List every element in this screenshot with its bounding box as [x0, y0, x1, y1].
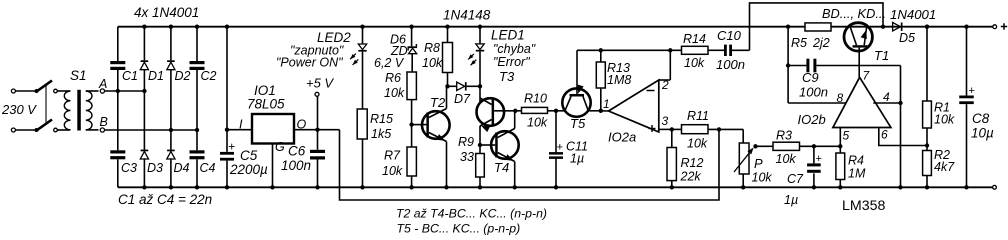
svg-text:1M: 1M — [848, 167, 866, 181]
svg-text:10k: 10k — [687, 137, 708, 151]
svg-text:1µ: 1µ — [570, 152, 584, 166]
svg-text:R8: R8 — [424, 41, 440, 55]
svg-text:"Power ON": "Power ON" — [276, 56, 343, 70]
svg-text:T5 - BC... KC... (p-n-p): T5 - BC... KC... (p-n-p) — [397, 222, 521, 236]
svg-text:B: B — [100, 115, 108, 129]
svg-text:R9: R9 — [458, 135, 474, 149]
svg-text:D4: D4 — [174, 161, 190, 175]
svg-text:C6: C6 — [288, 144, 306, 159]
svg-text:R14: R14 — [683, 32, 706, 46]
svg-text:22k: 22k — [680, 170, 702, 184]
svg-text:T1: T1 — [874, 48, 889, 63]
svg-text:+: + — [228, 140, 235, 154]
svg-text:T3: T3 — [499, 69, 515, 84]
svg-text:T2 až T4-BC... KC... (n-p-n): T2 až T4-BC... KC... (n-p-n) — [396, 207, 547, 221]
svg-text:5: 5 — [843, 129, 850, 143]
svg-text:R15: R15 — [370, 112, 393, 126]
svg-text:G: G — [275, 140, 285, 154]
svg-text:6,2 V: 6,2 V — [374, 56, 405, 70]
svg-text:C4: C4 — [200, 161, 216, 175]
svg-text:2200µ: 2200µ — [229, 162, 268, 177]
svg-text:10k: 10k — [934, 113, 955, 127]
svg-text:R5: R5 — [791, 36, 807, 50]
svg-text:I: I — [239, 118, 243, 132]
svg-text:2: 2 — [661, 78, 669, 92]
svg-text:+: + — [557, 141, 563, 153]
svg-text:D5: D5 — [899, 31, 915, 45]
svg-text:R4: R4 — [848, 154, 864, 168]
svg-text:IO2a: IO2a — [608, 130, 636, 145]
svg-text:1: 1 — [603, 97, 610, 111]
svg-text:S1: S1 — [70, 68, 87, 83]
svg-text:R3: R3 — [776, 129, 792, 143]
svg-text:R11: R11 — [687, 109, 709, 123]
svg-text:T4: T4 — [494, 160, 509, 175]
svg-text:10k: 10k — [527, 116, 548, 130]
svg-text:10k: 10k — [422, 56, 443, 70]
svg-text:LED1: LED1 — [491, 28, 525, 43]
svg-text:33: 33 — [460, 150, 474, 164]
svg-text:+: + — [816, 153, 822, 165]
svg-text:C7: C7 — [787, 172, 804, 186]
svg-text:D2: D2 — [175, 69, 191, 83]
svg-text:C5: C5 — [240, 148, 258, 163]
svg-text:10k: 10k — [382, 164, 403, 178]
svg-text:C1 až C4 = 22n: C1 až C4 = 22n — [118, 192, 212, 207]
svg-text:T2: T2 — [430, 95, 446, 110]
svg-text:10k: 10k — [684, 56, 705, 70]
svg-text:R6: R6 — [385, 71, 401, 85]
svg-text:C3: C3 — [121, 161, 137, 175]
svg-text:C9: C9 — [802, 70, 819, 85]
svg-text:IO2b: IO2b — [798, 112, 826, 127]
svg-text:4k7: 4k7 — [934, 160, 955, 174]
svg-text:4x 1N4001: 4x 1N4001 — [134, 5, 199, 20]
svg-text:R12: R12 — [681, 156, 704, 170]
svg-text:LM358: LM358 — [842, 198, 885, 214]
svg-text:6: 6 — [881, 128, 888, 142]
svg-text:A: A — [98, 77, 107, 91]
svg-text:+: + — [969, 85, 975, 97]
svg-text:78L05: 78L05 — [247, 97, 285, 112]
svg-text:4: 4 — [883, 90, 890, 104]
svg-text:3: 3 — [662, 114, 669, 128]
svg-text:10k: 10k — [384, 86, 405, 100]
svg-text:C8: C8 — [972, 111, 990, 126]
svg-text:10k: 10k — [776, 152, 797, 166]
svg-text:C10: C10 — [717, 28, 742, 43]
svg-text:1µ: 1µ — [784, 193, 798, 207]
svg-text:100n: 100n — [799, 85, 828, 100]
svg-text:D3: D3 — [147, 161, 163, 175]
svg-text:10k: 10k — [752, 171, 773, 185]
svg-text:10µ: 10µ — [971, 126, 994, 141]
svg-text:"Error": "Error" — [493, 55, 530, 69]
svg-text:230 V: 230 V — [1, 102, 37, 117]
svg-text:D1: D1 — [148, 69, 164, 83]
svg-text:+5 V: +5 V — [306, 76, 334, 91]
svg-text:C2: C2 — [201, 69, 217, 83]
svg-text:1M8: 1M8 — [607, 73, 631, 87]
svg-text:1N4001: 1N4001 — [890, 7, 936, 22]
svg-text:100n: 100n — [281, 158, 311, 173]
svg-text:2j2: 2j2 — [812, 36, 830, 50]
svg-text:"chyba": "chyba" — [493, 42, 536, 56]
svg-text:P: P — [754, 156, 763, 171]
svg-text:1k5: 1k5 — [371, 127, 391, 141]
svg-text:R7: R7 — [384, 149, 401, 163]
svg-text:BD..., KD...: BD..., KD... — [822, 6, 886, 21]
svg-text:100n: 100n — [716, 57, 745, 72]
svg-text:T5: T5 — [570, 116, 586, 131]
svg-text:D7: D7 — [454, 92, 471, 106]
svg-text:C1: C1 — [122, 69, 138, 83]
svg-text:R10: R10 — [524, 92, 547, 106]
svg-text:1N4148: 1N4148 — [443, 8, 491, 23]
